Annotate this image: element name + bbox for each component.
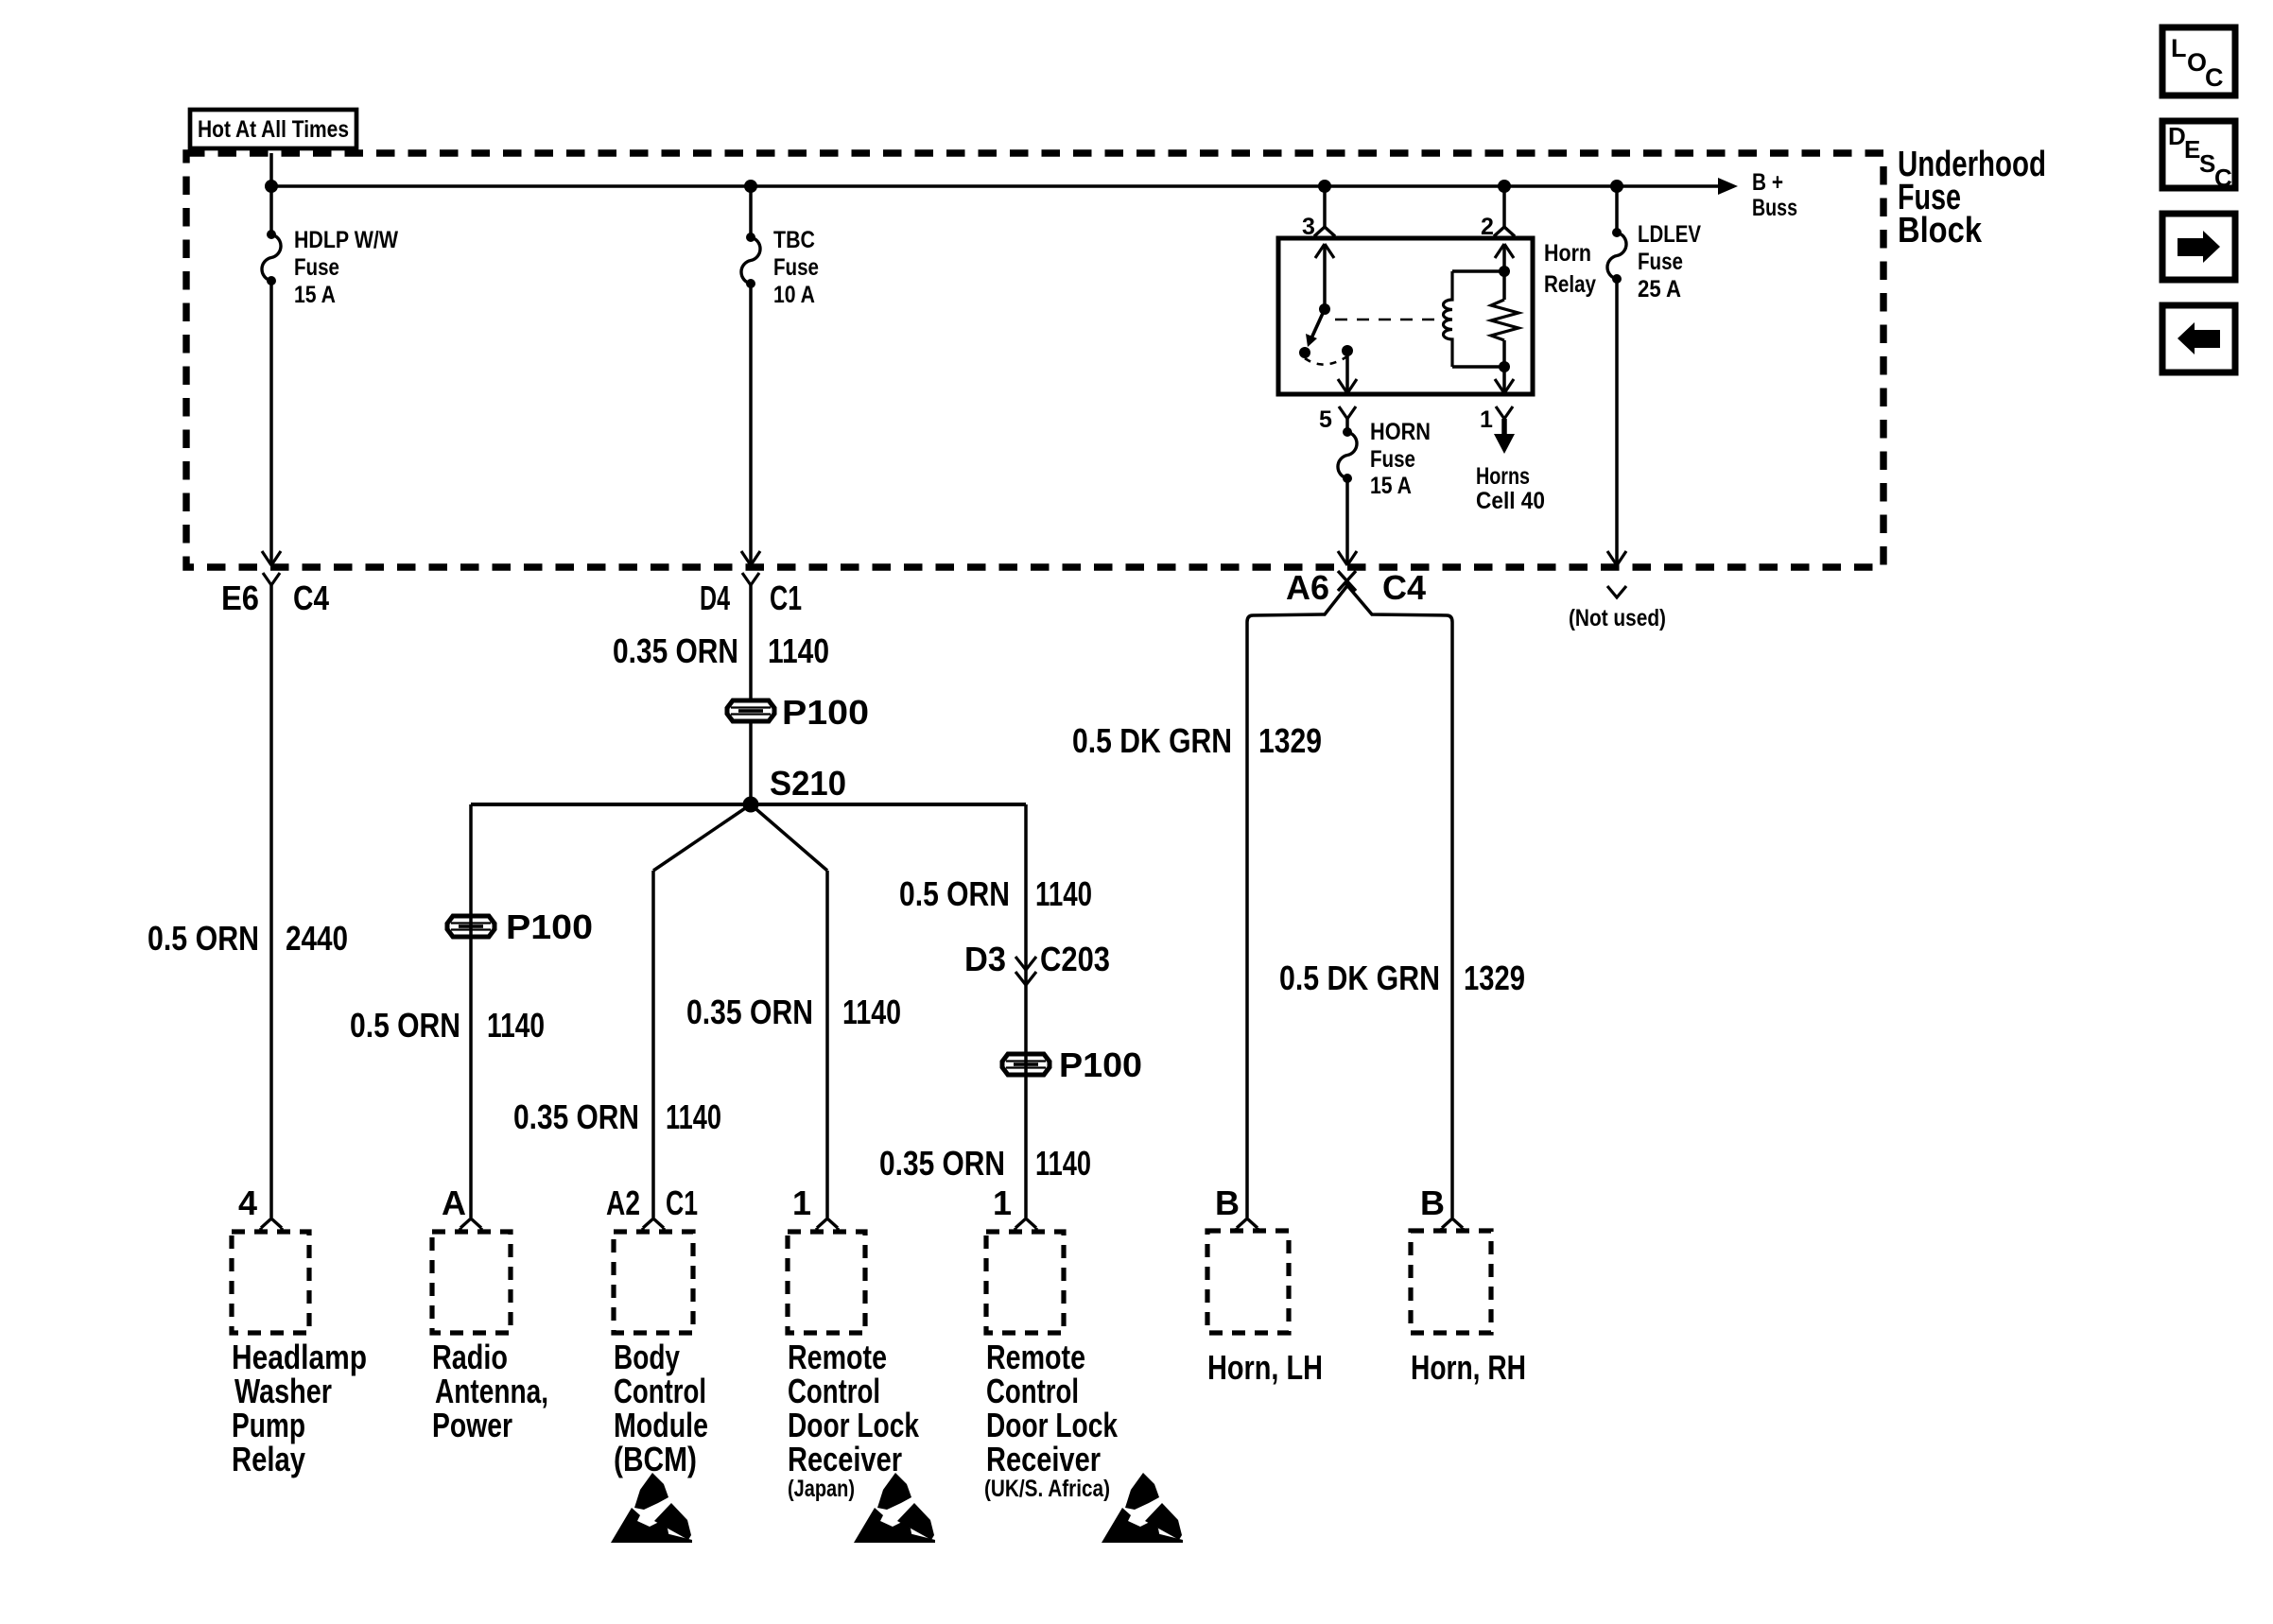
relay coil	[1444, 271, 1453, 367]
svg-text:Control: Control	[986, 1372, 1079, 1410]
svg-text:4: 4	[238, 1183, 257, 1222]
label 0.35 ORN 1140 at TBC	[613, 631, 829, 670]
svg-text:2440: 2440	[286, 919, 348, 958]
svg-text:C4: C4	[1382, 568, 1426, 607]
label 0.5 DK GRN 1329 right	[1279, 959, 1525, 997]
svg-text:Receiver: Receiver	[986, 1440, 1101, 1478]
wire BCM branch drop	[651, 871, 655, 1218]
icon box left arrow	[2162, 305, 2235, 372]
svg-text:Block: Block	[1898, 211, 1983, 251]
svg-text:Washer: Washer	[234, 1372, 332, 1410]
svg-text:Headlamp: Headlamp	[232, 1338, 367, 1376]
svg-text:B +: B +	[1752, 169, 1783, 196]
resistor inside relay	[1491, 300, 1518, 340]
svg-text:A: A	[442, 1183, 466, 1222]
wire resistor to pin1 with down arrow	[1495, 340, 1514, 393]
svg-text:15 A: 15 A	[1370, 473, 1412, 499]
svg-text:C: C	[2205, 63, 2224, 92]
svg-text:Horns: Horns	[1476, 463, 1530, 490]
label 0.5 DK GRN 1329 left	[1072, 721, 1322, 760]
svg-text:Module: Module	[614, 1406, 708, 1444]
connector horn RH pin	[1442, 1218, 1463, 1231]
svg-text:1329: 1329	[1258, 721, 1322, 760]
svg-text:Fuse: Fuse	[294, 254, 339, 281]
svg-text:(Japan): (Japan)	[788, 1476, 855, 1502]
connector E6/C4 exit arrow	[262, 551, 281, 565]
label HDLP W/W Fuse 15 A	[294, 227, 398, 308]
icon box right arrow	[2162, 214, 2235, 280]
svg-text:B: B	[1215, 1183, 1240, 1222]
svg-text:L: L	[2171, 34, 2187, 62]
svg-text:1140: 1140	[666, 1097, 721, 1136]
svg-text:LDLEV: LDLEV	[1638, 221, 1701, 248]
svg-text:Remote: Remote	[986, 1338, 1085, 1376]
label 0.35 ORN 1140 remote uk lower	[879, 1144, 1091, 1183]
svg-text:P100: P100	[506, 907, 593, 946]
connector E6/C4	[263, 573, 280, 585]
relay switch arm	[1306, 309, 1325, 347]
label Horn Relay	[1544, 240, 1596, 298]
svg-text:Control: Control	[614, 1372, 706, 1410]
svg-text:P100: P100	[1059, 1045, 1142, 1084]
svg-text:HDLP W/W: HDLP W/W	[294, 227, 398, 253]
connector remote uk pin	[1015, 1218, 1036, 1231]
connector P100 at remote uk wire	[1002, 1054, 1050, 1075]
svg-text:1: 1	[792, 1183, 811, 1222]
svg-text:0.5 ORN: 0.5 ORN	[899, 874, 1010, 913]
relay actuation dashed link	[1335, 319, 1438, 321]
node junction relay pin2 tap	[1498, 180, 1511, 193]
label Remote Control Door Lock Receiver (Japan)	[788, 1338, 920, 1502]
connector not-used exit arrow	[1607, 551, 1626, 565]
connector A6/C4 exit arrow	[1338, 551, 1357, 565]
connector headlamp relay pin	[261, 1218, 282, 1231]
wire horn LH branch	[1247, 583, 1349, 1218]
wire pin1 horns feed arrow	[1494, 419, 1515, 454]
connector D4/C1 exit arrow	[741, 551, 760, 565]
wire horn RH branch	[1345, 583, 1452, 1218]
connector relay pin2	[1494, 227, 1515, 239]
Underhood Fuse Block dashed boundary	[186, 153, 1883, 567]
wire switch center to pin5 with down arrow	[1338, 351, 1357, 393]
svg-text:D4: D4	[700, 579, 730, 617]
svg-text:E6: E6	[221, 579, 259, 617]
relay switch contact left	[1299, 347, 1310, 358]
svg-text:0.35 ORN: 0.35 ORN	[613, 631, 738, 670]
svg-text:0.35 ORN: 0.35 ORN	[879, 1144, 1005, 1183]
svg-text:C4: C4	[293, 579, 329, 617]
svg-text:A6: A6	[1286, 568, 1329, 607]
connector radio antenna pin	[460, 1218, 481, 1231]
relay switch throw dashed arc	[1305, 356, 1347, 365]
wire radio antenna branch drop	[469, 804, 473, 1218]
svg-text:0.5 ORN: 0.5 ORN	[350, 1006, 460, 1045]
wire TBC fuse to D4	[749, 284, 753, 565]
wire BCM branch diagonal	[653, 804, 751, 871]
svg-text:Fuse: Fuse	[773, 254, 819, 281]
label 0.35 ORN 1140 remote japan	[686, 993, 901, 1031]
svg-text:1140: 1140	[768, 631, 829, 670]
wire LDLEV feeder drop	[1615, 186, 1619, 233]
label Remote Control Door Lock Receiver (UK/S. Africa)	[984, 1338, 1119, 1502]
svg-text:C1: C1	[666, 1183, 698, 1222]
label Radio Antenna Power	[432, 1338, 548, 1444]
svg-text:25 A: 25 A	[1638, 276, 1681, 302]
wire remote uk branch drop	[1024, 804, 1028, 1218]
wire coil top rail	[1452, 269, 1504, 273]
svg-text:S210: S210	[770, 764, 846, 803]
symbol ESD sensitive remote uk	[1102, 1473, 1183, 1543]
svg-text:Cell 40: Cell 40	[1476, 488, 1545, 514]
connector horn LH pin	[1237, 1218, 1258, 1231]
svg-text:HORN: HORN	[1370, 419, 1431, 445]
svg-text:Fuse: Fuse	[1638, 249, 1683, 275]
icon box LOC	[2162, 27, 2235, 95]
svg-text:0.35 ORN: 0.35 ORN	[513, 1097, 639, 1136]
label LDLEV Fuse 25 A	[1638, 221, 1701, 302]
svg-text:Relay: Relay	[232, 1440, 305, 1478]
svg-text:C1: C1	[770, 579, 802, 617]
relay pin2 stub	[1502, 186, 1506, 227]
connector BCM pin	[643, 1218, 664, 1231]
svg-text:P100: P100	[782, 693, 869, 732]
wire D4 to P100	[749, 585, 753, 700]
relay pin2 internal wire with up arrow	[1495, 244, 1514, 300]
component remote receiver japan dashed box	[788, 1232, 865, 1333]
relay pin3 stub	[1323, 186, 1327, 227]
svg-text:1: 1	[1480, 406, 1493, 433]
relay switch pivot node	[1319, 303, 1330, 315]
wire P100 to S210	[749, 721, 753, 804]
wire coil bottom rail	[1452, 365, 1504, 369]
connector relay pin3	[1314, 227, 1335, 239]
svg-text:(BCM): (BCM)	[614, 1440, 697, 1478]
svg-text:Buss: Buss	[1752, 195, 1797, 221]
connector remote japan pin	[817, 1218, 838, 1231]
svg-text:1: 1	[993, 1183, 1012, 1222]
label B+ Buss	[1752, 169, 1797, 221]
svg-text:1140: 1140	[1035, 1144, 1091, 1183]
icon box DESC	[2162, 121, 2235, 192]
label HORN Fuse 15 A	[1370, 419, 1431, 499]
svg-text:Relay: Relay	[1544, 271, 1596, 298]
label 0.35 ORN 1140 BCM	[513, 1097, 721, 1136]
label Horns Cell 40	[1476, 463, 1545, 514]
wire remote japan branch diagonal	[751, 804, 827, 871]
component radio antenna dashed box	[432, 1232, 511, 1333]
svg-text:Horn: Horn	[1544, 240, 1591, 267]
component remote receiver uk dashed box	[986, 1232, 1064, 1333]
wire HORN fuse to A6	[1345, 478, 1349, 565]
svg-text:C: C	[2214, 164, 2232, 192]
svg-text:TBC: TBC	[773, 227, 815, 253]
svg-text:Power: Power	[432, 1406, 512, 1444]
horn relay box	[1278, 238, 1533, 394]
svg-text:0.5 DK GRN: 0.5 DK GRN	[1279, 959, 1440, 997]
svg-text:0.5 ORN: 0.5 ORN	[147, 919, 259, 958]
label TBC Fuse 10 A	[773, 227, 819, 308]
connector not used chevron	[1607, 586, 1626, 597]
svg-text:C203: C203	[1040, 940, 1110, 978]
wire remote japan branch drop	[825, 871, 829, 1218]
wire B+ bus	[271, 178, 1738, 195]
symbol ESD sensitive BCM	[611, 1473, 692, 1543]
label Headlamp Washer Pump Relay	[232, 1338, 367, 1478]
Underhood Fuse Block title	[1898, 145, 2046, 251]
wire LDLEV fuse to not-used	[1615, 279, 1619, 565]
svg-text:1140: 1140	[1035, 874, 1092, 913]
node junction LDLEV tap	[1610, 180, 1623, 193]
connector relay pin1	[1496, 406, 1513, 419]
fuse HDLP W/W 15A	[262, 230, 281, 285]
svg-text:1140: 1140	[487, 1006, 545, 1045]
wire splice crossbar	[471, 803, 1026, 806]
fuse TBC 10A	[741, 233, 760, 288]
svg-text:Horn, RH: Horn, RH	[1411, 1348, 1526, 1387]
fuse HORN 15A	[1338, 427, 1357, 483]
wire E6 to headlamp washer relay	[269, 585, 273, 1218]
connector D4/C1	[742, 573, 759, 585]
svg-text:Control: Control	[788, 1372, 880, 1410]
svg-text:E: E	[2184, 135, 2200, 164]
node coil top junction	[1499, 266, 1510, 277]
connector P100 at TBC wire	[727, 700, 774, 721]
relay pin3 internal wire with up arrow	[1315, 244, 1334, 309]
wire pin5 to HORN fuse	[1345, 419, 1349, 432]
svg-text:Body: Body	[614, 1338, 680, 1376]
wire HDLP fuse to E6	[269, 281, 273, 565]
node coil bottom junction	[1499, 361, 1510, 372]
svg-text:Door Lock: Door Lock	[788, 1406, 920, 1444]
svg-text:1140: 1140	[842, 993, 901, 1031]
svg-text:5: 5	[1319, 406, 1332, 433]
wire HDLP feeder drop	[269, 153, 273, 234]
svg-text:Remote: Remote	[788, 1338, 887, 1376]
symbol ESD sensitive remote japan	[854, 1473, 935, 1543]
component horn RH dashed box	[1411, 1231, 1491, 1333]
svg-text:Pump: Pump	[232, 1406, 305, 1444]
connector D3/C203 chevrons	[1015, 957, 1036, 985]
svg-text:Door Lock: Door Lock	[986, 1406, 1119, 1444]
label 0.5 ORN 1140 remote uk	[899, 874, 1092, 913]
svg-text:(Not used): (Not used)	[1569, 605, 1666, 631]
svg-text:Horn, LH: Horn, LH	[1207, 1348, 1323, 1387]
svg-text:B: B	[1420, 1183, 1445, 1222]
svg-text:1329: 1329	[1464, 959, 1525, 997]
component horn LH dashed box	[1207, 1231, 1289, 1333]
svg-text:O: O	[2187, 48, 2207, 77]
label 0.5 ORN 2440	[147, 919, 348, 958]
label Body Control Module (BCM)	[614, 1338, 708, 1478]
node splice S210	[743, 797, 759, 813]
component BCM dashed box	[614, 1232, 693, 1333]
node junction TBC tap	[744, 180, 757, 193]
svg-text:Fuse: Fuse	[1370, 446, 1415, 473]
fuse LDLEV 25A	[1607, 228, 1626, 284]
svg-text:Radio: Radio	[432, 1338, 508, 1376]
connector A6/C4 X splice	[1338, 571, 1356, 591]
svg-text:A2: A2	[606, 1183, 640, 1222]
connector relay pin5	[1339, 406, 1356, 419]
svg-text:(UK/S. Africa): (UK/S. Africa)	[984, 1476, 1110, 1502]
svg-text:0.5 DK GRN: 0.5 DK GRN	[1072, 721, 1232, 760]
svg-text:S: S	[2199, 149, 2215, 178]
svg-text:10 A: 10 A	[773, 282, 815, 308]
connector P100 at radio wire	[447, 916, 495, 937]
relay switch contact center	[1342, 345, 1353, 356]
svg-text:D: D	[2168, 122, 2186, 150]
component headlamp washer pump relay dashed box	[232, 1232, 309, 1333]
node junction relay pin3 tap	[1318, 180, 1331, 193]
svg-text:15 A: 15 A	[294, 282, 336, 308]
Hot At All Times label box	[190, 110, 356, 148]
svg-text:Hot At All Times: Hot At All Times	[198, 116, 349, 143]
svg-text:0.35 ORN: 0.35 ORN	[686, 993, 813, 1031]
svg-text:Antenna,: Antenna,	[435, 1372, 548, 1410]
svg-text:D3: D3	[964, 940, 1006, 978]
svg-text:Receiver: Receiver	[788, 1440, 902, 1478]
node junction HDLP tap	[265, 180, 278, 193]
label 0.5 ORN 1140 radio	[350, 1006, 545, 1045]
wire TBC feeder drop	[749, 186, 753, 237]
